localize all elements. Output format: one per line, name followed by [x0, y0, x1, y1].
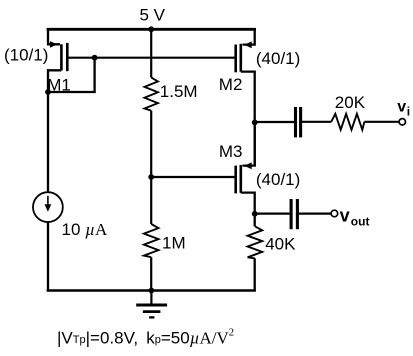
svg-text:5 V: 5 V: [140, 5, 166, 24]
wire: middle column rail to 1.5M: [150, 29, 152, 77]
wire: vi coupling: [255, 121, 294, 123]
svg-text:10 µA: 10 µA: [62, 220, 108, 239]
svg-text:v: v: [340, 205, 350, 225]
wire: M1 gate-drain diode link: [47, 58, 95, 92]
node: M2 drain / vi tap: [252, 120, 258, 126]
svg-text:40K: 40K: [265, 234, 296, 253]
wire: M1 source lead from rail: [48, 28, 60, 44]
M1 channel bar: [60, 44, 63, 70]
svg-text:i: i: [407, 104, 410, 118]
M2 gate bar: [234, 45, 237, 73]
wire: C1 to 20K: [302, 121, 331, 123]
wire: 20K to vi terminal: [364, 121, 399, 123]
node: rail / 1.5M tap: [148, 26, 154, 32]
node: M1 gate junction: [92, 55, 98, 61]
wire: 40K to bottom rail: [254, 258, 256, 291]
svg-text:1.5M: 1.5M: [160, 82, 198, 101]
node: M3 gate tap: [148, 174, 154, 180]
wire: middle column 1M to rail: [150, 257, 152, 290]
svg-text:M3: M3: [219, 142, 243, 161]
svg-text:M2: M2: [219, 75, 243, 94]
resistor 40K: [248, 226, 263, 258]
M1 gate bar: [66, 43, 69, 71]
wire: left column to bottom rail: [47, 222, 49, 291]
arrow: M1 source (PMOS): [50, 41, 58, 48]
svg-text:out: out: [351, 215, 370, 229]
wire: M2 source lead from rail: [243, 28, 255, 45]
wire: M3 source lead: [243, 122, 255, 166]
arrow: M2 source (PMOS): [244, 41, 252, 48]
svg-text:1M: 1M: [162, 234, 186, 253]
wire: vout coupling: [255, 213, 290, 215]
node: M1 drain junction: [45, 89, 51, 95]
wire: M2 drain lead: [241, 72, 255, 166]
node: M3 drain / vout tap: [252, 211, 258, 217]
transistor M3 (PMOS): [236, 122, 255, 214]
wire: gate line M1-M2: [67, 57, 234, 59]
wire: M1 drain lead: [48, 70, 61, 192]
terminal vi: [399, 119, 405, 125]
wire: M3 gate line: [151, 176, 234, 178]
svg-text:20K: 20K: [335, 93, 366, 112]
svg-text:(40/1): (40/1): [256, 170, 300, 189]
arrow: M3 source (PMOS): [244, 162, 252, 169]
terminal vout: [331, 210, 338, 217]
resistor 20K: [331, 114, 364, 130]
transistor M1 (PMOS, diode-connected): [48, 28, 67, 192]
capacitor C2: [291, 199, 297, 229]
M3 channel bar: [240, 165, 243, 193]
wire: C2 to vout terminal: [299, 213, 331, 215]
M3 gate bar: [234, 166, 237, 194]
wire: top 5V rail: [47, 28, 256, 31]
ground: [136, 291, 167, 318]
resistor 1M: [144, 224, 159, 257]
svg-text:v: v: [397, 99, 406, 116]
transistor M2 (PMOS): [236, 28, 255, 166]
svg-text:(40/1): (40/1): [256, 49, 300, 68]
wire: middle column 1.5M to 1M: [150, 111, 152, 224]
wire: M3 drain lead: [241, 193, 255, 214]
M2 channel bar: [240, 44, 243, 72]
node: ground junction: [149, 288, 155, 294]
capacitor C1: [296, 107, 301, 137]
wire: bottom rail: [47, 289, 256, 292]
wire: M3 drain to 40K: [254, 214, 256, 227]
resistor 1.5M: [145, 77, 158, 110]
current source I 10uA: [33, 192, 63, 222]
svg-text:(10/1): (10/1): [4, 46, 48, 65]
